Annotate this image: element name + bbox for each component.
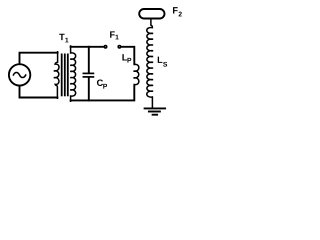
transformer T1 core (62, 54, 68, 95)
topload terminal F2 (139, 9, 164, 19)
label LP (122, 54, 131, 62)
transformer T1 primary winding (54, 52, 59, 98)
spark gap F1 (104, 46, 120, 48)
wire inductor LP bottom / tank bottom return (71, 85, 135, 100)
label F2 (173, 7, 182, 16)
transformer T1 secondary winding (70, 46, 75, 101)
label F1 (110, 31, 119, 39)
wire AC source bottom to transformer primary (20, 86, 58, 98)
label CP (97, 79, 107, 88)
wire AC source top to transformer primary (20, 53, 58, 64)
inductor LP (tank primary coil) (134, 63, 139, 86)
ground (145, 108, 166, 114)
inductor LS (secondary coil) with wire from topload and to ground (147, 19, 153, 108)
wire transformer secondary to spark gap (71, 46, 103, 48)
label T1 (59, 34, 68, 43)
AC source (9, 64, 30, 85)
capacitor CP (83, 47, 93, 101)
label LS (158, 57, 167, 67)
wire spark gap to inductor LP (122, 47, 134, 64)
